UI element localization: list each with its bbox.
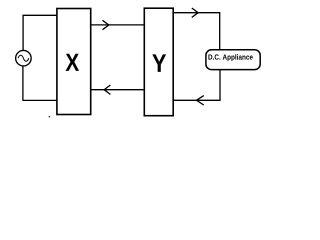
label Y xyxy=(152,54,166,72)
arrow left xyxy=(196,96,203,105)
stray dot xyxy=(49,116,50,117)
block X xyxy=(57,9,91,115)
ac source xyxy=(16,50,32,65)
wire xyxy=(23,66,57,100)
arrow left xyxy=(104,85,110,94)
arrow right xyxy=(192,8,198,17)
wire xyxy=(173,13,220,50)
wire xyxy=(23,15,57,50)
label D.C. Appliance xyxy=(208,54,252,61)
block Y xyxy=(144,8,173,116)
label X xyxy=(66,54,80,71)
wire xyxy=(91,89,145,91)
D.C. Appliance box xyxy=(206,50,260,70)
wire xyxy=(91,24,145,26)
wire xyxy=(173,70,220,101)
arrow right xyxy=(103,20,109,29)
